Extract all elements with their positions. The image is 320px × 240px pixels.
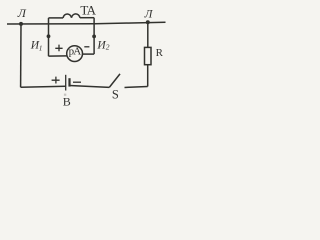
svg-text:S: S [112,88,119,102]
wire: left branch vertical [20,24,22,87]
wire: battery to switch pivot [70,86,110,88]
battery plus sign [52,77,60,84]
node И1 terminal dot [47,34,51,38]
battery B short thick plate [68,78,70,86]
node Л left junction dot [19,22,23,26]
svg-text:1: 1 [39,44,43,52]
svg-text:Л: Л [144,9,154,21]
svg-text:рА: рА [69,45,82,57]
transformer TA coil base right segment [80,17,94,19]
wire: TA secondary right vertical [93,18,95,54]
resistor R body [145,47,152,64]
paper background [0,0,178,119]
svg-text:В: В [63,95,71,109]
wire: meter loop right horizontal [83,53,95,55]
node Л right junction dot [146,20,150,24]
meter minus sign [84,46,89,48]
battery minus sign [73,81,81,83]
wire: right vertical above resistor [147,22,149,47]
wire: right vertical below resistor [147,65,149,87]
ammeter pA circle [67,46,83,62]
node И2 terminal dot [92,35,96,39]
wire: switch right contact to corner [125,87,148,88]
svg-text:Л: Л [17,6,27,20]
transformer TA coil base left segment [49,17,64,19]
svg-text:2: 2 [106,43,110,52]
meter plus sign [55,45,62,52]
wire: bottom left horizontal to battery [21,86,66,87]
battery B long plate [65,75,67,91]
wire: top line Л-Л [7,22,166,24]
svg-text:R: R [156,47,164,59]
switch S blade [109,74,120,88]
ink speck below battery plate [64,94,66,96]
svg-text:ТА: ТА [80,2,96,17]
wire: TA secondary left vertical [48,18,50,56]
transformer TA coil humps [63,14,80,18]
wire: meter loop left horizontal [49,55,67,57]
